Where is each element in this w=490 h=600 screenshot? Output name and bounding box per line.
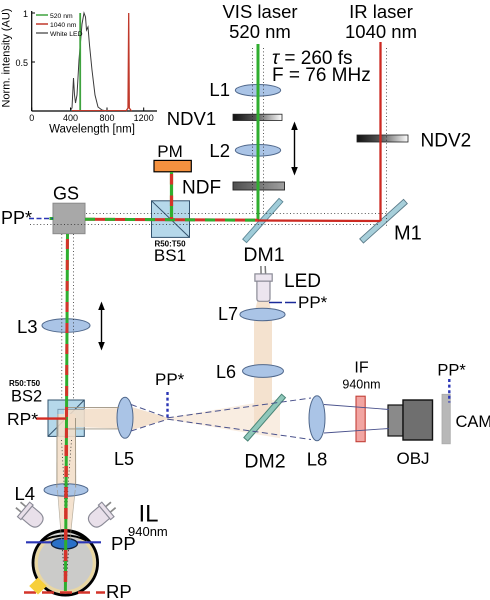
svg-text:800: 800 — [99, 113, 114, 123]
green beam stub left of GS — [50, 217, 54, 220]
beam band edges BS2 to L5 — [66, 407, 119, 409]
GS down beam: green base — [66, 234, 67, 438]
horizontal envelope top — [86, 213, 387, 215]
svg-text:L2: L2 — [209, 140, 230, 161]
beam edge L8 to OBJ upper — [324, 405, 389, 410]
lens L6 — [243, 365, 284, 378]
svg-text:L5: L5 — [114, 449, 134, 469]
svg-text:520 nm: 520 nm — [229, 21, 291, 42]
dichroic mirror DM1 — [243, 198, 283, 242]
svg-text:LED: LED — [284, 271, 321, 292]
svg-text:1200: 1200 — [134, 113, 154, 123]
lens L3 — [42, 319, 90, 333]
BS1 to PM beam: green base — [170, 172, 173, 219]
LED device — [255, 266, 272, 301]
interference filter IF — [356, 396, 365, 442]
svg-text:L1: L1 — [209, 79, 230, 100]
svg-text:400: 400 — [63, 113, 78, 123]
PP* line at GS — [29, 218, 53, 220]
beam band edges BS2 to L4 — [56, 418, 58, 488]
svg-text:PP*: PP* — [298, 293, 328, 312]
lens L7 — [240, 308, 285, 320]
beige beam BS2 down to L4 — [57, 414, 76, 488]
illuminator IL right LED — [85, 498, 120, 532]
lens L4 — [44, 484, 88, 496]
eye globe — [33, 531, 98, 596]
ND filter NDF — [233, 182, 285, 190]
svg-text:IR laser: IR laser — [349, 1, 413, 22]
plot axes — [31, 11, 33, 111]
lens L5 — [117, 397, 133, 438]
svg-text:L7: L7 — [218, 304, 238, 324]
pupil plane PP line — [26, 541, 101, 543]
beige beam BS2 to L5 — [64, 408, 120, 429]
svg-text:VIS laser: VIS laser — [222, 1, 297, 22]
svg-text:PP: PP — [111, 533, 136, 554]
eye lens — [51, 538, 77, 549]
GS vertical envelope right — [72, 234, 74, 400]
svg-text:PP*: PP* — [155, 370, 185, 389]
VIS green beam vertical — [257, 44, 260, 221]
svg-text:PP*: PP* — [1, 208, 32, 228]
illuminator IL left LED — [12, 498, 47, 532]
svg-text:Norm. intensity (AU): Norm. intensity (AU) — [1, 8, 13, 107]
combined beam DM1 to GS: red base — [85, 219, 258, 220]
svg-text:NDV1: NDV1 — [167, 108, 216, 129]
lens L2 — [235, 145, 280, 157]
520nm green line — [79, 13, 81, 111]
beam edge focus to L8 upper — [168, 398, 311, 418]
svg-text:L3: L3 — [17, 316, 38, 337]
svg-text:0.5: 0.5 — [15, 58, 28, 68]
svg-text:940nm: 940nm — [342, 378, 380, 392]
inner 3D face lines of BS2 — [58, 409, 84, 436]
svg-text:PP*: PP* — [437, 362, 466, 380]
RP* red line — [36, 417, 67, 419]
svg-text:IF: IF — [354, 360, 368, 377]
VIS beam envelope right — [262, 48, 264, 213]
svg-text:NDV2: NDV2 — [421, 131, 472, 152]
1040nm red spike — [126, 13, 132, 111]
svg-text:GS: GS — [53, 184, 79, 204]
svg-text:1040 nm: 1040 nm — [50, 22, 77, 29]
y ticks — [32, 12, 35, 14]
combined beam DM1 to GS: green dashes — [85, 219, 258, 220]
converging envelope into eye — [63, 491, 66, 540]
ND filter NDV1 — [233, 114, 282, 120]
PP* line at CAM — [448, 379, 450, 403]
ND filter NDV2 — [357, 135, 408, 142]
svg-text:PM: PM — [157, 142, 183, 161]
svg-text:L4: L4 — [15, 483, 36, 504]
GS vertical envelope left — [61, 234, 63, 400]
svg-text:Wavelength [nm]: Wavelength [nm] — [49, 124, 135, 136]
svg-text:RP: RP — [106, 581, 132, 600]
beamsplitter cube BS2 — [48, 400, 84, 436]
beam edge focus to L8 lower — [168, 419, 311, 439]
red baseline — [72, 110, 126, 112]
beam edge L8 to OBJ lower — [324, 429, 389, 434]
double arrow at L3 — [98, 302, 105, 351]
lens L1 — [235, 85, 280, 97]
svg-text:CAM: CAM — [456, 413, 490, 431]
IR beam envelope right — [386, 48, 388, 226]
svg-text:F = 76 MHz: F = 76 MHz — [272, 65, 371, 86]
GS down beam: red dashes — [66, 239, 67, 438]
beam edge L5 to focus lower — [131, 419, 168, 431]
svg-text:520 nm: 520 nm — [50, 13, 73, 20]
svg-text:White LED: White LED — [50, 31, 83, 38]
lens L8 — [309, 396, 325, 441]
white LED spectrum curve — [70, 13, 106, 111]
svg-text:0: 0 — [29, 113, 34, 123]
retina plane RP line — [24, 591, 105, 594]
svg-text:NDF: NDF — [182, 178, 221, 199]
beam edge L5 to focus upper — [131, 405, 168, 418]
svg-text:DM1: DM1 — [243, 244, 284, 266]
svg-text:M1: M1 — [394, 223, 422, 245]
beige beam LED to DM2 — [254, 301, 272, 430]
galvo scanner GS — [53, 203, 85, 234]
cornea — [42, 531, 87, 541]
beam BS2 to eye: green base — [65, 438, 66, 591]
beam BS2 to eye: red dashes — [64, 445, 68, 591]
PP* line at L5 focus — [166, 392, 168, 418]
svg-text:1: 1 — [23, 9, 28, 19]
power meter PM — [154, 160, 191, 171]
svg-text:DM2: DM2 — [244, 451, 285, 473]
L4 beam envelope left — [62, 440, 65, 488]
beamsplitter cube BS1 — [152, 201, 190, 238]
beige beam L4 to eye pupil — [58, 489, 75, 541]
svg-text:RP*: RP* — [7, 409, 38, 429]
BS1 to PM beam: red dashes — [170, 174, 173, 219]
svg-text:L8: L8 — [307, 449, 328, 470]
mirror M1 — [360, 199, 408, 243]
camera CAM — [442, 394, 450, 444]
dichroic mirror DM2 — [244, 394, 286, 441]
objective OBJ body — [403, 400, 433, 440]
yellow diamond — [29, 578, 47, 595]
VIS beam envelope left — [252, 48, 254, 213]
legend — [36, 14, 48, 16]
x ticks — [31, 108, 33, 112]
svg-text:L6: L6 — [216, 362, 236, 382]
dotted focus lines inside eye — [63, 550, 66, 590]
objective OBJ front — [388, 405, 403, 436]
svg-text:BS1: BS1 — [154, 246, 186, 265]
svg-text:1040 nm: 1040 nm — [345, 21, 417, 42]
svg-text:BS2: BS2 — [11, 388, 42, 406]
choroid ring — [36, 534, 94, 592]
double arrow at L2 — [291, 122, 298, 176]
IR red beam horizontal M1 to DM1 — [258, 219, 381, 222]
IR red beam vertical — [379, 42, 381, 221]
svg-text:OBJ: OBJ — [396, 449, 429, 468]
horizontal envelope bottom — [30, 224, 380, 226]
PP* line at LED — [269, 302, 296, 304]
